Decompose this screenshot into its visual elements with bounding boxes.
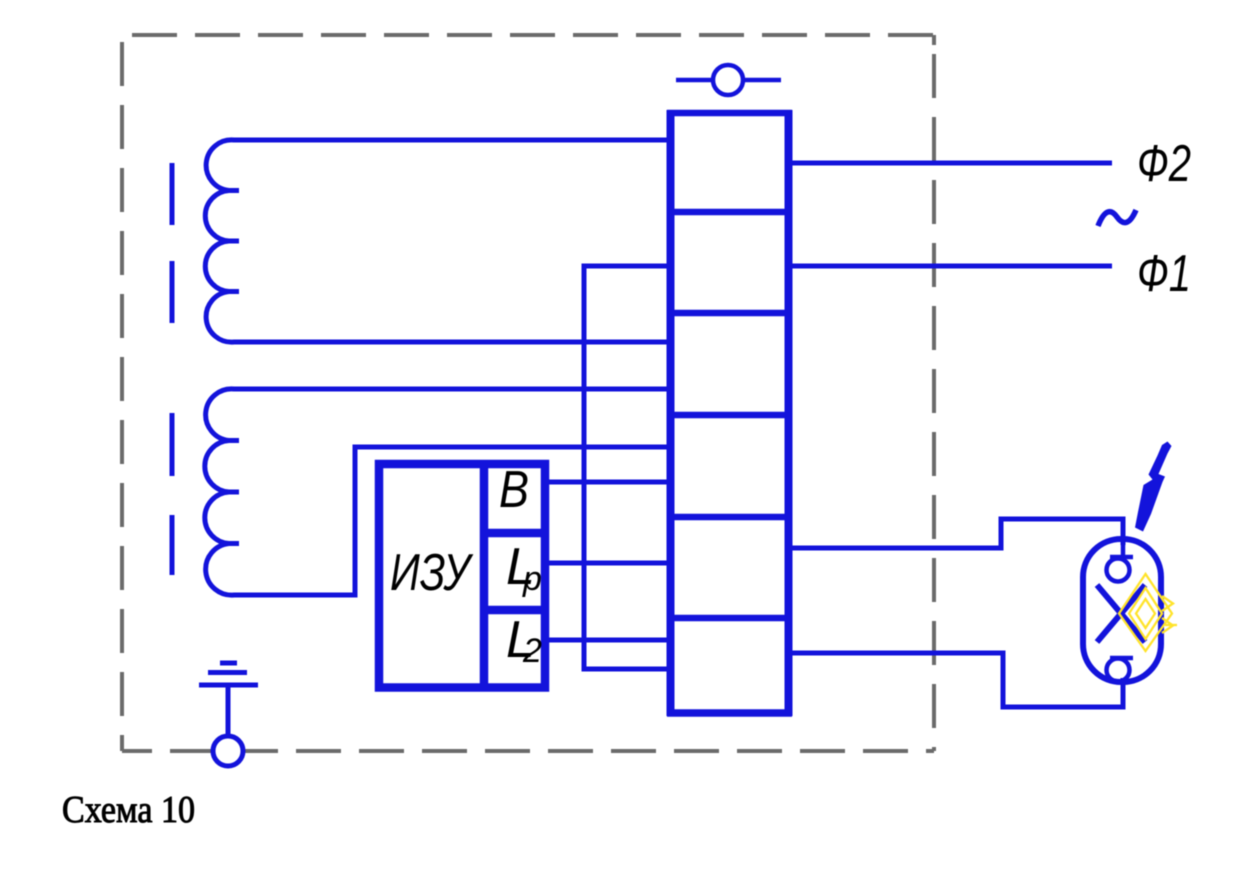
svg-text:ИЗУ: ИЗУ bbox=[390, 544, 474, 602]
ground symbol bbox=[199, 663, 258, 766]
svg-text:B: B bbox=[499, 461, 529, 519]
yellow light burst bbox=[1119, 574, 1177, 651]
lamp top electrode bbox=[1107, 539, 1134, 582]
inductor L2 core (dashed) bbox=[170, 413, 175, 575]
wire: bus from phase F1 down to block bottom bbox=[584, 266, 672, 669]
dashed enclosure border bbox=[122, 35, 934, 751]
wire: block to lamp bottom bbox=[788, 653, 1123, 707]
inductor L1 winding bbox=[205, 140, 672, 342]
svg-text:Ф2: Ф2 bbox=[1137, 135, 1191, 193]
lamp X mark bbox=[1097, 585, 1145, 642]
pin label L2 bbox=[506, 611, 542, 670]
terminal block X1 bbox=[667, 110, 792, 716]
pin label Lp bbox=[506, 538, 542, 598]
switch S1 (circle) above block bbox=[676, 65, 781, 95]
AC tilde symbol bbox=[1098, 210, 1136, 226]
label IZU bbox=[390, 544, 474, 602]
wire: pin B to terminal block bbox=[547, 480, 672, 485]
label F2 bbox=[1137, 135, 1191, 193]
lightning bolt bbox=[1135, 442, 1172, 532]
caption Schema 10 bbox=[62, 789, 195, 831]
wire: block to lamp top bbox=[788, 519, 1123, 548]
svg-text:2: 2 bbox=[522, 632, 542, 670]
inductor L2 winding bbox=[205, 389, 672, 595]
wire: phase F1 bbox=[788, 264, 1112, 269]
svg-text:Ф1: Ф1 bbox=[1137, 245, 1191, 303]
svg-text:p: p bbox=[522, 560, 542, 598]
lamp EL1 body bbox=[1083, 539, 1161, 682]
ignitor box U1 (IZU) bbox=[379, 464, 545, 688]
label F1 bbox=[1137, 245, 1191, 303]
wire: pin Lp to terminal block bbox=[547, 561, 672, 566]
svg-text:Схема 10: Схема 10 bbox=[62, 789, 195, 831]
lamp bottom electrode bbox=[1107, 658, 1134, 684]
pin label B bbox=[499, 461, 529, 519]
wire: phase F2 bbox=[788, 161, 1112, 166]
inductor L1 core (dashed) bbox=[170, 163, 175, 324]
wire: pin L2 to terminal block bbox=[547, 638, 672, 643]
